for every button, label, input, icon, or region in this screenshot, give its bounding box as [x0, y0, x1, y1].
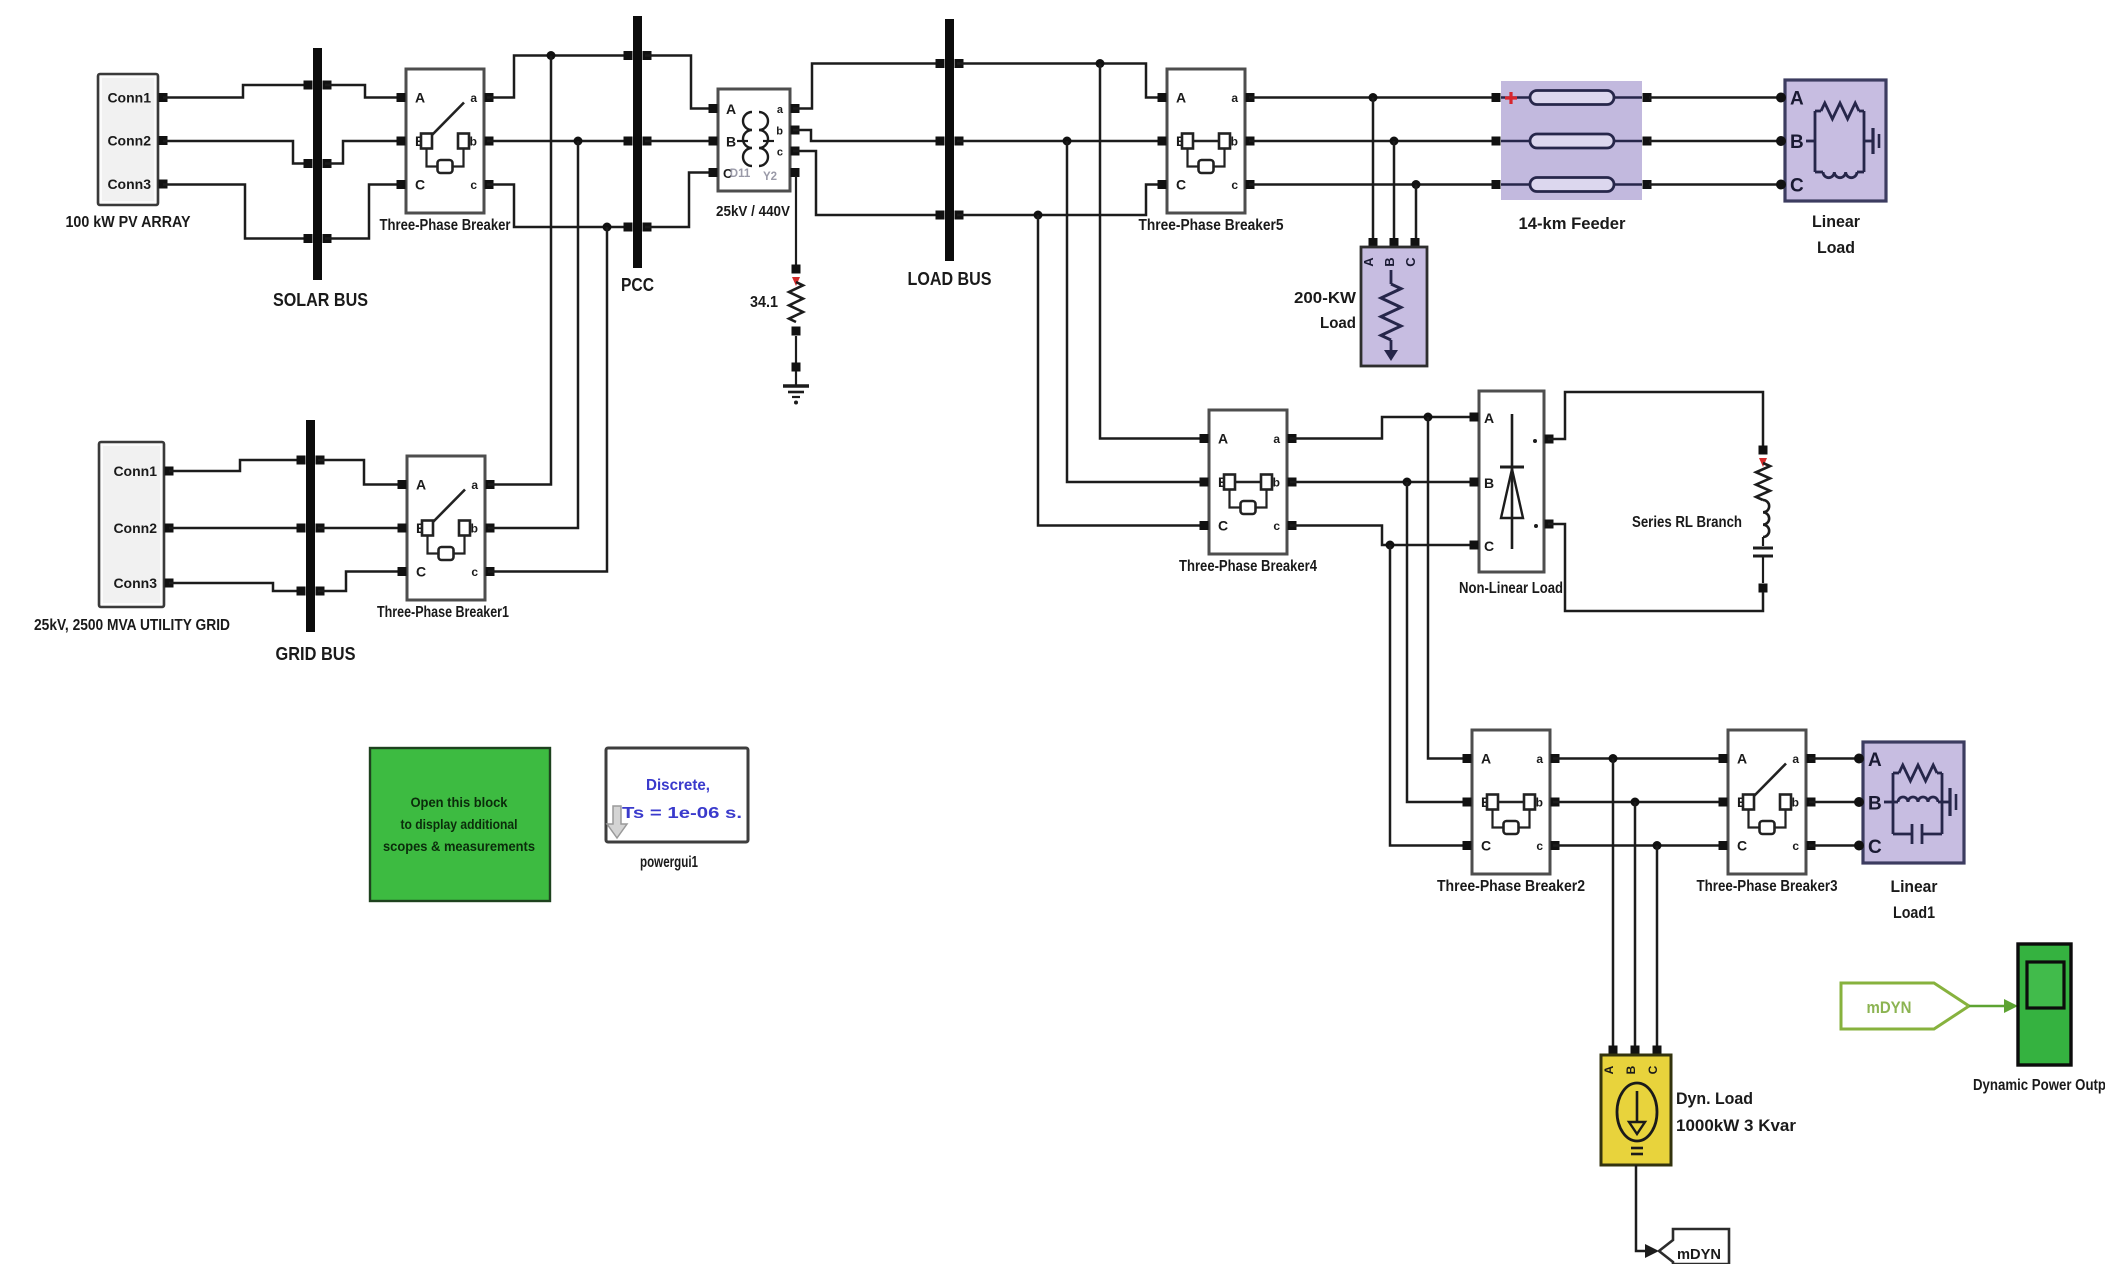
wire PCC to transformer A — [645, 56, 715, 109]
wire transformer b to LOAD BUS — [793, 130, 941, 141]
svg-text:Load: Load — [1320, 315, 1356, 332]
wire PV Conn3 to SOLAR BUS — [163, 185, 310, 239]
wire breaker4 b to non-linear load B — [1290, 481, 1477, 484]
svg-text:Conn3: Conn3 — [107, 176, 151, 192]
green signal wire mDYN to scope — [1969, 999, 2018, 1013]
wire LOAD BUS node down to breaker4 C — [1038, 215, 1204, 526]
wire GRID BUS to breaker1 B — [318, 527, 405, 530]
svg-text:a: a — [471, 478, 478, 492]
svg-text:B: B — [1624, 1065, 1638, 1074]
svg-text:A: A — [416, 477, 426, 493]
three-phase breaker (solar) Three-Phase Breaker — [380, 69, 511, 234]
svg-text:LOAD BUS: LOAD BUS — [908, 269, 992, 289]
wire breaker1 c up to PCC node — [488, 227, 607, 572]
wire LOAD BUS to breaker5 A — [957, 64, 1165, 98]
svg-text:A: A — [726, 101, 736, 117]
wire LOAD BUS to breaker5 C — [957, 185, 1165, 216]
svg-text:Open this block: Open this block — [411, 794, 508, 810]
svg-text:C: C — [1790, 176, 1804, 197]
bus bar LOAD BUS — [908, 19, 992, 289]
wire GRID BUS to breaker1 A — [318, 460, 405, 485]
svg-text:Three-Phase Breaker: Three-Phase Breaker — [380, 217, 511, 234]
svg-text:PCC: PCC — [621, 275, 654, 295]
wire series RL back to non-linear load - — [1548, 524, 1763, 611]
wire breaker4 c to non-linear load C — [1290, 526, 1477, 546]
svg-text:b: b — [1231, 135, 1238, 149]
wire breaker b to PCC — [487, 140, 631, 143]
wire breaker5 b to feeder — [1249, 140, 1495, 143]
svg-text:B: B — [726, 134, 736, 150]
svg-text:C: C — [1737, 838, 1747, 854]
rectifier block Non-Linear Load — [1459, 391, 1563, 597]
svg-text:GRID BUS: GRID BUS — [276, 644, 356, 664]
svg-text:A: A — [1602, 1065, 1616, 1074]
svg-text:C: C — [416, 564, 426, 580]
wire breaker c to PCC — [487, 185, 631, 228]
svg-text:A: A — [1790, 89, 1804, 110]
svg-text:A: A — [1737, 751, 1747, 767]
wire breaker2 a to breaker3 A — [1553, 757, 1725, 760]
svg-text:c: c — [1273, 519, 1280, 533]
transformer block 25kV / 440V — [709, 89, 800, 220]
svg-text:a: a — [1231, 91, 1238, 105]
svg-text:C: C — [1218, 518, 1228, 534]
svg-text:b: b — [1536, 796, 1543, 810]
svg-text:Three-Phase Breaker4: Three-Phase Breaker4 — [1179, 558, 1317, 575]
junction node to 200-KW load B — [1390, 137, 1399, 146]
junction node breaker1-b tap — [574, 137, 583, 146]
wire node down to dyn load B — [1634, 802, 1637, 1047]
wire breaker3 a to linear load1 A — [1809, 757, 1859, 760]
junction node to breaker2 C — [1386, 541, 1395, 550]
wire transformer c to LOAD BUS — [793, 151, 941, 215]
junction node to breaker4 B — [1063, 137, 1072, 146]
svg-text:A: A — [1868, 750, 1882, 771]
svg-text:1000kW 3 Kvar: 1000kW 3 Kvar — [1676, 1116, 1796, 1135]
wire grid Conn2 to GRID BUS — [169, 527, 303, 530]
wire drop to 200-KW load B — [1393, 141, 1396, 241]
wire node down to breaker2 B — [1407, 482, 1467, 802]
svg-text:A: A — [1176, 90, 1186, 106]
svg-text:Linear: Linear — [1812, 212, 1860, 231]
svg-text:C: C — [1176, 177, 1186, 193]
svg-text:Linear: Linear — [1891, 877, 1938, 896]
svg-text:A: A — [415, 90, 425, 106]
wire LOAD BUS node down to breaker4 A — [1100, 64, 1204, 439]
svg-text:c: c — [470, 178, 477, 192]
linear load block Linear Load — [1776, 80, 1886, 257]
series RLC branch Series RL Branch — [1632, 446, 1773, 593]
junction node breaker1-a tap — [547, 51, 556, 60]
Goto tag mDYN (green) — [1841, 983, 1969, 1029]
svg-text:A: A — [1481, 751, 1491, 767]
svg-text:B: B — [1790, 132, 1804, 153]
scope block Dynamic Power Outp — [1973, 944, 2105, 1094]
wire node down to breaker2 C — [1390, 545, 1467, 846]
subsystem block 25kV 2500 MVA UTILITY GRID — [34, 442, 230, 634]
wire feeder a to linear load — [1649, 96, 1782, 99]
svg-text:c: c — [471, 565, 478, 579]
junction node to dyn load B — [1631, 798, 1640, 807]
svg-text:C: C — [1868, 837, 1882, 858]
svg-text:A: A — [1484, 410, 1494, 426]
wire node down to dyn load A — [1612, 759, 1615, 1048]
svg-text:a: a — [470, 91, 477, 105]
three-phase breaker Three-Phase Breaker3 — [1697, 730, 1838, 895]
junction node to dyn load C — [1653, 841, 1662, 850]
wire node down to breaker2 A — [1428, 417, 1467, 759]
svg-text:b: b — [1792, 796, 1799, 810]
svg-text:200-KW: 200-KW — [1294, 290, 1357, 307]
svg-text:Discrete,: Discrete, — [646, 777, 710, 794]
wire PV Conn1 to SOLAR BUS — [163, 85, 310, 98]
wire breaker3 b to linear load1 B — [1809, 801, 1859, 804]
dynamic load block Dyn. Load 1000kW 3 Kvar — [1601, 1046, 1796, 1166]
svg-text:a: a — [1273, 432, 1280, 446]
bus bar GRID BUS — [276, 420, 356, 664]
svg-text:Dynamic Power Outp: Dynamic Power Outp — [1973, 1077, 2105, 1094]
svg-text:b: b — [471, 522, 478, 536]
wire LOAD BUS to breaker5 B — [957, 140, 1165, 143]
svg-text:C: C — [1484, 538, 1494, 554]
powergui1 block Discrete Ts = 1e-06 s. — [606, 748, 748, 871]
svg-text:Load: Load — [1817, 238, 1855, 257]
wire SOLAR BUS to breaker C — [325, 185, 404, 239]
svg-text:A: A — [1218, 431, 1228, 447]
resistive load block 200-KW Load — [1294, 238, 1427, 366]
svg-text:c: c — [1792, 839, 1799, 853]
subsystem block 100 kW PV ARRAY — [66, 74, 191, 231]
wire grid Conn3 to GRID BUS — [169, 583, 303, 591]
svg-text:A: A — [1361, 257, 1376, 267]
wire PV Conn2 to SOLAR BUS — [163, 141, 310, 164]
svg-text:25kV, 2500 MVA UTILITY GRID: 25kV, 2500 MVA UTILITY GRID — [34, 617, 230, 634]
svg-text:Y2: Y2 — [763, 171, 777, 183]
svg-text:C: C — [1646, 1065, 1660, 1074]
junction node to 200-KW load C — [1412, 180, 1421, 189]
From tag mDYN (bottom) — [1659, 1229, 1729, 1264]
svg-text:Load1: Load1 — [1893, 903, 1935, 922]
wire breaker a to PCC — [487, 56, 631, 98]
svg-text:C: C — [1403, 257, 1418, 267]
wire GRID BUS to breaker1 C — [318, 572, 405, 592]
svg-text:Three-Phase Breaker3: Three-Phase Breaker3 — [1697, 878, 1838, 895]
svg-text:powergui1: powergui1 — [640, 854, 698, 871]
svg-text:c: c — [1231, 178, 1238, 192]
svg-text:Non-Linear Load: Non-Linear Load — [1459, 580, 1563, 597]
svg-text:mDYN: mDYN — [1677, 1246, 1721, 1263]
svg-text:to display additional: to display additional — [401, 816, 518, 832]
svg-text:25kV / 440V: 25kV / 440V — [716, 203, 790, 220]
wire transformer a to LOAD BUS — [793, 64, 941, 109]
three-phase breaker Three-Phase Breaker4 — [1179, 410, 1317, 575]
wire breaker3 c to linear load1 C — [1809, 844, 1859, 847]
svg-text:Conn1: Conn1 — [107, 90, 151, 106]
svg-text:34.1: 34.1 — [750, 294, 778, 311]
svg-text:Three-Phase Breaker2: Three-Phase Breaker2 — [1437, 878, 1585, 895]
junction node to breaker2 A — [1424, 413, 1433, 422]
wire SOLAR BUS to breaker A — [325, 85, 404, 98]
wire drop to 200-KW load C — [1415, 185, 1418, 242]
svg-text:a: a — [1536, 752, 1543, 766]
svg-text:Three-Phase Breaker1: Three-Phase Breaker1 — [377, 604, 509, 621]
wire breaker2 b to breaker3 B — [1553, 801, 1725, 804]
arrowhead into From tag — [1645, 1244, 1659, 1258]
linear load block Linear Load1 — [1854, 742, 1964, 922]
three-phase breaker Three-Phase Breaker5 — [1139, 69, 1284, 234]
svg-text:c: c — [777, 147, 783, 159]
wire non-linear load + to series RL — [1548, 392, 1763, 446]
svg-text:c: c — [1536, 839, 1543, 853]
wire grid Conn1 to GRID BUS — [169, 460, 303, 471]
wire feeder c to linear load — [1649, 183, 1782, 186]
svg-text:C: C — [415, 177, 425, 193]
svg-text:SOLAR BUS: SOLAR BUS — [273, 290, 368, 310]
svg-text:14-km Feeder: 14-km Feeder — [1519, 214, 1626, 233]
svg-text:Dyn. Load: Dyn. Load — [1676, 1089, 1753, 1108]
svg-text:a: a — [1792, 752, 1799, 766]
svg-text:Conn3: Conn3 — [113, 575, 157, 591]
wire breaker1 b up to PCC node — [488, 141, 578, 528]
svg-text:B: B — [1382, 257, 1397, 266]
svg-text:mDYN: mDYN — [1867, 998, 1912, 1017]
wire LOAD BUS node down to breaker4 B — [1067, 141, 1204, 482]
green annotation block — [370, 748, 550, 901]
grounding resistor branch 34.1 with ground — [750, 176, 809, 405]
svg-text:a: a — [777, 104, 784, 116]
junction node to breaker4 A — [1096, 59, 1105, 68]
svg-text:100 kW PV ARRAY: 100 kW PV ARRAY — [66, 214, 191, 231]
svg-text:Three-Phase Breaker5: Three-Phase Breaker5 — [1139, 217, 1284, 234]
svg-text:b: b — [470, 135, 477, 149]
wire node down to dyn load C — [1656, 846, 1659, 1048]
wire dyn load m to From tag — [1636, 1165, 1647, 1251]
svg-text:D11: D11 — [730, 168, 751, 180]
wire PCC to transformer C — [645, 173, 715, 228]
wire drop to 200-KW load A — [1372, 98, 1375, 242]
wire breaker5 a to feeder — [1249, 96, 1495, 99]
svg-text:Ts = 1e-06 s.: Ts = 1e-06 s. — [622, 805, 742, 822]
wire PCC to transformer B — [645, 140, 715, 143]
wire breaker4 a to non-linear load A — [1290, 417, 1477, 439]
wire SOLAR BUS to breaker B — [325, 141, 404, 164]
svg-text:B: B — [1868, 794, 1882, 815]
junction node to 200-KW load A — [1369, 93, 1378, 102]
junction node to dyn load A — [1609, 754, 1618, 763]
wire feeder b to linear load — [1649, 140, 1782, 143]
bus bar SOLAR BUS — [273, 48, 368, 310]
svg-text:b: b — [1273, 476, 1280, 490]
svg-text:Series RL Branch: Series RL Branch — [1632, 514, 1742, 531]
wire breaker1 a up to PCC node — [488, 56, 551, 485]
three-phase breaker Three-Phase Breaker2 — [1437, 730, 1585, 895]
bus bar PCC — [621, 16, 654, 295]
svg-text:C: C — [1481, 838, 1491, 854]
svg-text:Conn2: Conn2 — [107, 133, 151, 149]
svg-text:Conn1: Conn1 — [113, 463, 157, 479]
junction node breaker1-c tap — [603, 223, 612, 232]
junction node to breaker4 C — [1034, 211, 1043, 220]
wire breaker2 c to breaker3 C — [1553, 844, 1725, 847]
wire breaker5 c to feeder — [1249, 183, 1495, 186]
three-phase breaker Three-Phase Breaker1 — [377, 456, 509, 621]
svg-text:b: b — [776, 126, 783, 138]
junction node to breaker2 B — [1403, 478, 1412, 487]
svg-text:scopes & measurements: scopes & measurements — [383, 838, 535, 854]
svg-text:B: B — [1484, 475, 1494, 491]
transmission line block 14-km Feeder — [1492, 81, 1652, 233]
svg-text:Conn2: Conn2 — [113, 520, 157, 536]
